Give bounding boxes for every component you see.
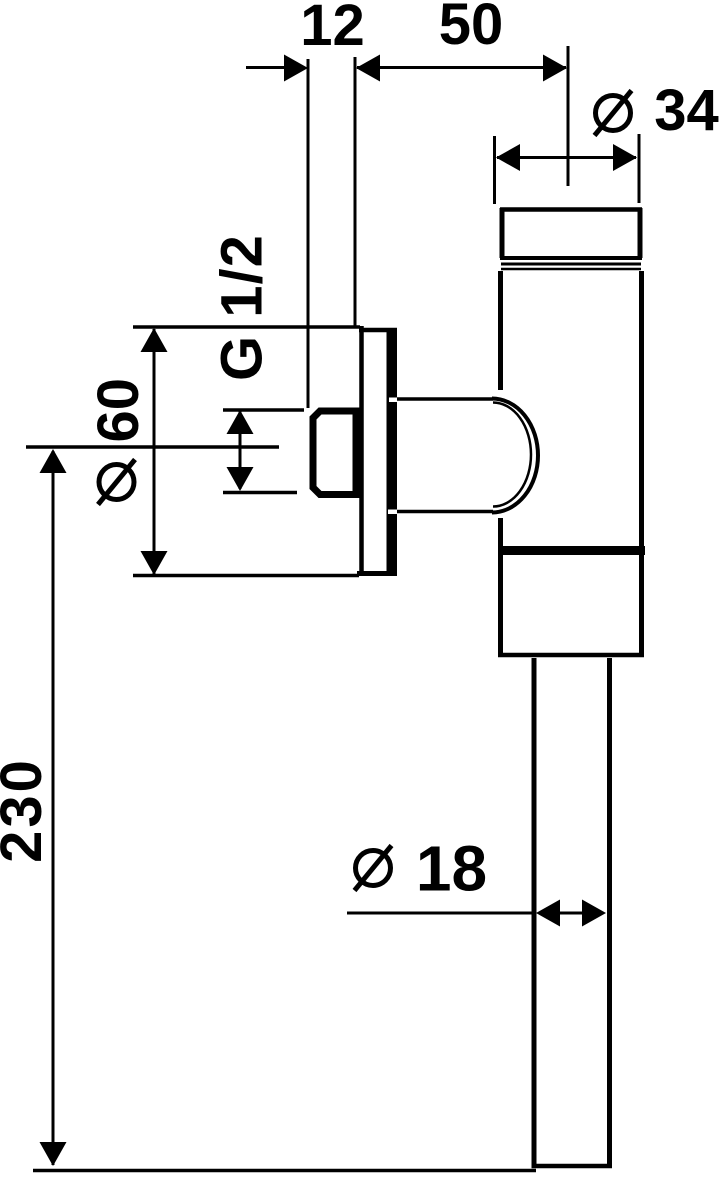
svg-text:60: 60 xyxy=(86,378,151,443)
svg-text:34: 34 xyxy=(654,78,719,143)
svg-text:230: 230 xyxy=(0,757,54,863)
svg-text:18: 18 xyxy=(416,833,487,905)
svg-text:G 1/2: G 1/2 xyxy=(210,234,275,381)
svg-text:12: 12 xyxy=(300,0,365,58)
svg-text:50: 50 xyxy=(439,0,504,57)
